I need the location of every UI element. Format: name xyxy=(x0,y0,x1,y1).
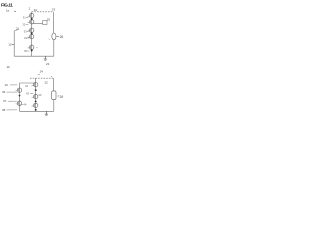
svg-text:26: 26 xyxy=(60,95,64,99)
svg-text:37: 37 xyxy=(3,99,7,103)
svg-text:26: 26 xyxy=(60,35,64,39)
svg-text:10: 10 xyxy=(8,43,12,47)
svg-text:34: 34 xyxy=(24,36,27,40)
svg-text:36: 36 xyxy=(2,90,6,94)
svg-text:24: 24 xyxy=(34,8,38,12)
svg-text:32: 32 xyxy=(22,22,25,26)
svg-text:35: 35 xyxy=(24,49,27,53)
svg-text:1b: 1b xyxy=(7,65,11,69)
svg-text:41: 41 xyxy=(25,84,29,88)
svg-text:23: 23 xyxy=(46,62,50,66)
svg-text:44: 44 xyxy=(23,103,27,107)
svg-text:24: 24 xyxy=(40,69,44,73)
svg-text:43: 43 xyxy=(38,93,42,97)
svg-text:33: 33 xyxy=(24,29,27,33)
svg-text:10: 10 xyxy=(5,83,9,87)
svg-text:31: 31 xyxy=(23,16,26,20)
svg-text:1a: 1a xyxy=(6,9,10,13)
svg-text:38: 38 xyxy=(2,108,6,112)
svg-text:21: 21 xyxy=(16,26,20,30)
svg-text:42: 42 xyxy=(26,92,30,96)
svg-text:25: 25 xyxy=(47,17,51,21)
svg-text:22: 22 xyxy=(45,81,49,85)
svg-text:FIG.11: FIG.11 xyxy=(1,2,13,7)
svg-text:23: 23 xyxy=(52,7,56,11)
